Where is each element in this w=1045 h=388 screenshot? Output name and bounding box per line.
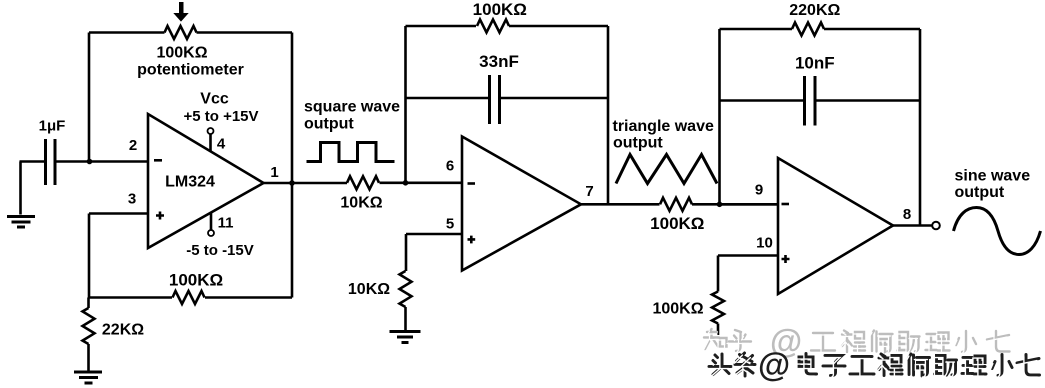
svg-text:10: 10 — [756, 235, 773, 252]
svg-text:220KΩ: 220KΩ — [789, 2, 840, 19]
svg-text:4: 4 — [217, 136, 226, 153]
svg-text:+5 to +15V: +5 to +15V — [183, 108, 258, 125]
svg-text:LM324: LM324 — [165, 174, 215, 191]
svg-text:100KΩ: 100KΩ — [650, 214, 704, 233]
svg-text:10KΩ: 10KΩ — [340, 195, 382, 212]
svg-text:potentiometer: potentiometer — [137, 62, 244, 79]
svg-text:7: 7 — [585, 183, 593, 200]
svg-text:3: 3 — [128, 191, 136, 208]
svg-text:10nF: 10nF — [795, 54, 835, 73]
svg-text:output: output — [613, 135, 663, 152]
svg-text:sine wave: sine wave — [955, 168, 1031, 185]
svg-text:Vcc: Vcc — [200, 91, 229, 108]
svg-text:5: 5 — [446, 216, 454, 233]
svg-text:9: 9 — [755, 182, 763, 199]
svg-text:6: 6 — [446, 158, 454, 175]
svg-text:8: 8 — [903, 206, 911, 223]
svg-text:100KΩ: 100KΩ — [652, 301, 703, 318]
svg-text:2: 2 — [129, 137, 137, 154]
svg-text:square wave: square wave — [304, 99, 400, 116]
svg-text:output: output — [304, 115, 354, 132]
svg-text:1μF: 1μF — [39, 118, 66, 135]
svg-text:-5 to -15V: -5 to -15V — [186, 242, 254, 259]
svg-text:11: 11 — [218, 215, 234, 232]
svg-text:10KΩ: 10KΩ — [348, 281, 390, 298]
svg-text:output: output — [955, 184, 1005, 201]
svg-text:100KΩ: 100KΩ — [473, 0, 527, 19]
svg-text:100KΩ: 100KΩ — [169, 271, 223, 290]
svg-text:triangle wave: triangle wave — [613, 118, 714, 135]
svg-text:@: @ — [758, 346, 790, 383]
svg-text:33nF: 33nF — [479, 52, 519, 71]
svg-text:22KΩ: 22KΩ — [102, 322, 144, 339]
svg-text:100KΩ: 100KΩ — [156, 45, 207, 62]
svg-text:1: 1 — [270, 164, 278, 181]
